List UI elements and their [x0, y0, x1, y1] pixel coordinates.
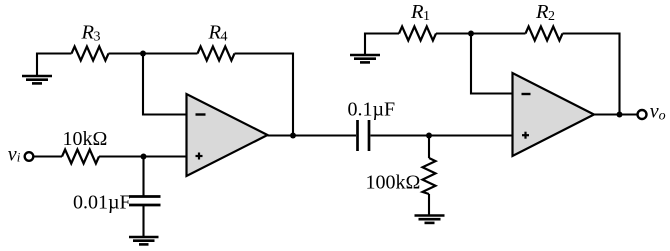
wire R2 to U2 output node (feedback): [563, 34, 620, 115]
wire G1 to R3: [36, 52, 72, 54]
U2 inverting input marker: [522, 93, 531, 95]
U2 non-inverting input marker: [522, 132, 529, 139]
wire U2 output to vo terminal: [594, 113, 637, 115]
op-amp U2: [513, 73, 595, 156]
node E junction (U2 output): [617, 112, 623, 118]
node D junction: [468, 31, 474, 37]
wire U1 output to C1: [268, 134, 357, 136]
resistor R4: [198, 47, 235, 61]
resistor R1: [399, 27, 436, 41]
wire 10k to U1 non-inverting input: [99, 155, 187, 157]
svg-text:0.1µF: 0.1µF: [348, 99, 396, 121]
U1 non-inverting input marker: [196, 153, 203, 160]
capacitor C1 0.1uF: [358, 120, 370, 151]
output terminal vo: [638, 110, 647, 119]
wire node A to U1 inverting input: [143, 54, 187, 115]
op-amp U1: [187, 94, 268, 176]
wire R3 to node A: [109, 52, 144, 54]
wire node D to R2: [471, 32, 526, 34]
svg-text:0.01µF: 0.01µF: [73, 192, 131, 214]
resistor 100kOhm: [423, 158, 436, 194]
node U1 output junction: [290, 133, 296, 139]
node A junction: [140, 51, 146, 57]
ground G4 (below 100k): [415, 194, 445, 223]
node C junction: [426, 133, 432, 139]
wire C1 to U2 non-inverting input: [371, 134, 513, 136]
resistor R3: [72, 47, 109, 61]
wire R1 to node D: [436, 32, 471, 34]
resistor 10kOhm: [62, 150, 99, 164]
node B junction: [141, 154, 147, 160]
wire vi to 10k resistor: [34, 155, 63, 157]
wire node A to R4: [143, 52, 198, 54]
U1 inverting input marker: [196, 113, 206, 115]
ground G1 (left of R3): [22, 53, 52, 84]
svg-text:10kΩ: 10kΩ: [63, 128, 108, 150]
wire node C to 100k resistor: [428, 136, 430, 159]
wire R4 to U1 output node (feedback): [235, 54, 294, 136]
wire node D to U2 inverting input: [471, 34, 513, 94]
wire node B to capacitor C2: [142, 157, 144, 197]
wire G3 to R1: [364, 32, 399, 34]
ground G2 (below C2): [129, 205, 159, 244]
ground G3 (left of R1): [350, 33, 380, 63]
capacitor C2 0.01uF: [129, 197, 161, 206]
svg-text:100kΩ: 100kΩ: [366, 172, 421, 194]
resistor R2: [526, 27, 563, 41]
input terminal vi: [25, 152, 34, 161]
